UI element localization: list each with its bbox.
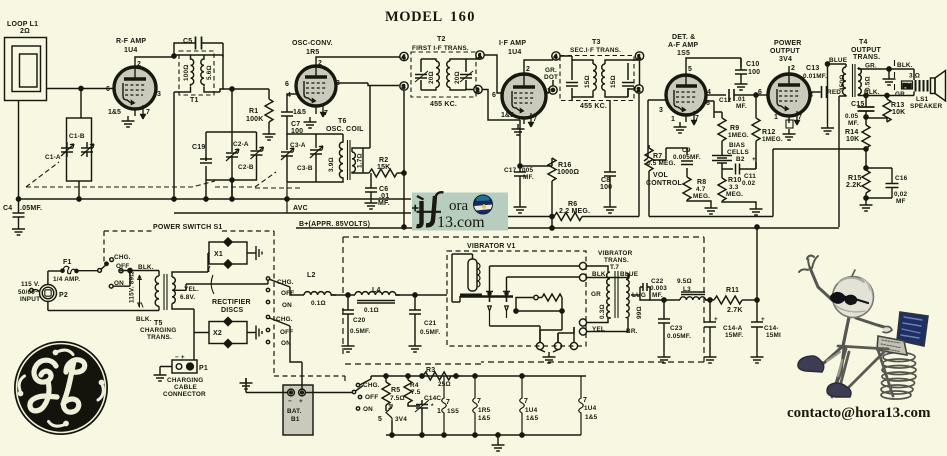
resistor R2 15K: [369, 169, 397, 177]
ground C13: [821, 123, 834, 134]
svg-text:GR.: GR.: [865, 63, 877, 70]
wire V4 pin4 to C12: [706, 94, 726, 96]
globe icon: [474, 195, 493, 214]
svg-text:R15: R15: [848, 175, 861, 182]
svg-text:ON: ON: [114, 280, 124, 287]
svg-text:7: 7: [533, 116, 537, 123]
pin 4 T2 circle: [400, 52, 408, 60]
svg-text:T.7: T.7: [610, 264, 619, 271]
svg-text:BAT.: BAT.: [287, 408, 302, 415]
wire V5 plate to C13: [809, 91, 821, 93]
svg-text:MF.: MF.: [523, 174, 534, 181]
svg-text:BIAS: BIAS: [729, 142, 746, 149]
svg-text:YEL: YEL: [592, 326, 605, 333]
svg-text:CONNECTOR: CONNECTOR: [163, 391, 206, 398]
svg-text:I·F AMP: I·F AMP: [499, 40, 526, 47]
fuse F1: [48, 266, 98, 273]
svg-text:20Ω: 20Ω: [428, 71, 435, 84]
wire X2/P1 riser: [193, 333, 195, 363]
svg-text:C8: C8: [601, 177, 610, 184]
svg-text:MEG.: MEG.: [726, 191, 743, 198]
svg-text:3: 3: [402, 85, 405, 91]
svg-text:7: 7: [146, 109, 150, 116]
resistor R5 7.5: [382, 376, 390, 411]
capacitor C2-B varc: [251, 147, 264, 160]
vibrator damper contact: [513, 295, 542, 299]
svg-text:0.5MF.: 0.5MF.: [350, 328, 370, 335]
svg-text:2.2K: 2.2K: [846, 182, 862, 189]
tube V4 DET & A-F AMP 1S5: [666, 68, 706, 125]
ground C21: [409, 341, 422, 352]
svg-text:1000Ω: 1000Ω: [557, 169, 579, 176]
svg-text:C2-B: C2-B: [238, 164, 254, 171]
wire switch to T5 primary top: [158, 271, 160, 277]
svg-text:*: *: [431, 403, 434, 410]
transformer T4 core: [853, 64, 856, 97]
svg-text:RECTIFIER: RECTIFIER: [212, 299, 251, 306]
svg-text:15Ω: 15Ω: [610, 75, 617, 88]
svg-text:ON: ON: [282, 302, 292, 309]
svg-text:R16: R16: [558, 162, 571, 169]
svg-text:1.7Ω: 1.7Ω: [357, 153, 364, 168]
svg-text:3: 3: [157, 91, 161, 98]
wire gang dashed linkage: [26, 162, 140, 187]
head sphere: [833, 277, 874, 318]
coil T1 secondary: [201, 57, 204, 87]
svg-text:SEC.I·F TRANS.: SEC.I·F TRANS.: [570, 47, 621, 54]
svg-text:BLK.: BLK.: [592, 271, 608, 278]
svg-text:1R5: 1R5: [306, 49, 319, 56]
chassis dashed boundary: [894, 60, 896, 90]
svg-text:7: 7: [583, 397, 587, 404]
vibrator inner dashed box V1: [447, 251, 586, 346]
coil L4: [355, 292, 400, 295]
svg-text:R12: R12: [762, 129, 775, 136]
svg-text:1&5: 1&5: [478, 415, 491, 422]
svg-text:0,02: 0,02: [894, 191, 907, 198]
resistor R9 1MEG: [718, 118, 726, 152]
svg-text:455 KC.: 455 KC.: [580, 103, 607, 110]
capacitor C21: [409, 310, 421, 341]
svg-text:OFF: OFF: [281, 290, 294, 297]
shoe left: [798, 356, 824, 372]
resistor R15 2.2K: [862, 170, 870, 200]
vibrator outer dashed box: [343, 237, 704, 364]
svg-text:C14C: C14C: [424, 395, 441, 402]
vibrator coil: [468, 259, 480, 291]
resistor R11 2.7K: [714, 296, 742, 304]
svg-text:CHG.: CHG.: [277, 279, 294, 286]
svg-text:CHARGING: CHARGING: [140, 327, 176, 334]
capacitor C20: [342, 295, 354, 341]
tube V3 I-F AMP 1U4: [502, 68, 546, 127]
svg-text:DET. &: DET. &: [672, 34, 695, 41]
svg-text:0.5MF.: 0.5MF.: [420, 329, 440, 336]
svg-text:FIRST I-F TRANS.: FIRST I-F TRANS.: [412, 45, 469, 52]
svg-text:1U4: 1U4: [508, 49, 521, 56]
connector P1: [160, 360, 197, 373]
ground R10: [750, 204, 763, 215]
B+ bus: [296, 227, 839, 229]
svg-text:115 V.: 115 V.: [21, 281, 40, 288]
svg-text:1&5: 1&5: [293, 109, 306, 116]
svg-text:160: 160: [450, 9, 476, 25]
right arm to laptop: [856, 318, 884, 327]
filament rail top: [371, 375, 586, 377]
wire R14 to R15 node: [865, 149, 867, 168]
vibrator pins bottom: [536, 342, 543, 349]
capacitor C16: [866, 168, 899, 198]
svg-text:3V4: 3V4: [779, 56, 792, 63]
transformer T2 dashed box: [411, 52, 476, 97]
svg-text:7: 7: [324, 110, 328, 117]
svg-text:0.3Ω: 0.3Ω: [599, 304, 606, 319]
svg-text:1R5: 1R5: [478, 407, 491, 414]
vibrator contact 2: [503, 291, 510, 318]
wire T2 pin2 to AVC: [482, 90, 520, 167]
node 232,89: [230, 87, 234, 91]
svg-text:6: 6: [106, 86, 110, 93]
svg-text:CHG.: CHG.: [276, 316, 293, 323]
svg-text:DOT: DOT: [544, 74, 558, 81]
wire T3 sec bottom tap to C8: [572, 97, 610, 168]
svg-text:R3: R3: [426, 367, 435, 374]
GE logo: [14, 341, 108, 435]
svg-text:C1-A: C1-A: [45, 154, 61, 161]
svg-text:CELLS: CELLS: [727, 149, 749, 156]
svg-text:L3: L3: [683, 286, 691, 293]
svg-text:P2: P2: [59, 292, 68, 299]
capacitor T2 trimmer right: [460, 59, 473, 90]
resistor R3 25 horizontal: [422, 372, 460, 380]
ground C23: [658, 352, 671, 363]
transformer T6 core: [348, 140, 351, 180]
svg-text:10K: 10K: [846, 136, 859, 143]
transformer T7 core: [615, 271, 618, 318]
svg-text:2.7K: 2.7K: [727, 307, 743, 314]
svg-text:7: 7: [524, 398, 528, 405]
svg-text:3.9Ω: 3.9Ω: [328, 157, 335, 172]
coil T3 primary: [572, 60, 596, 97]
spring: [881, 353, 916, 400]
svg-text:POWER: POWER: [774, 40, 801, 47]
ground P1: [154, 370, 167, 381]
trousers shading: [827, 352, 842, 376]
transformer T5 secondary: [172, 272, 208, 309]
svg-text:4.7: 4.7: [696, 186, 706, 193]
svg-text:BLK.: BLK.: [138, 264, 154, 271]
svg-text:TRANS.: TRANS.: [147, 334, 172, 341]
ground C14-B: [751, 352, 764, 363]
cartoon mascot: [798, 256, 928, 399]
svg-text:100Ω: 100Ω: [183, 64, 190, 81]
body torso: [843, 317, 849, 346]
svg-text:T2: T2: [437, 36, 446, 43]
wire C3 bottom to AVC bus: [286, 182, 288, 213]
svg-text:T5: T5: [154, 320, 163, 327]
svg-text:1&5: 1&5: [585, 414, 598, 421]
svg-text:1&5: 1&5: [526, 415, 539, 422]
vibrator reed: [460, 295, 513, 297]
tube V1 R-F AMP 1U4: [114, 61, 156, 119]
svg-text:100: 100: [291, 128, 303, 135]
wire V2 pin4 to C7: [287, 94, 296, 112]
legs: [813, 346, 843, 363]
resistor R4 7.5: [404, 376, 420, 410]
svg-text:R-F AMP: R-F AMP: [116, 38, 146, 45]
svg-text:99Ω: 99Ω: [636, 306, 643, 319]
ground X1: [256, 246, 262, 260]
wire 232 down to C19 box top: [206, 132, 257, 161]
pin 1 T2 circle: [476, 51, 484, 59]
svg-text:GR.: GR.: [895, 91, 907, 98]
svg-text:0.005MF.: 0.005MF.: [673, 154, 701, 161]
transformer T7 secondary: [626, 273, 629, 318]
wire bank2 to L2: [290, 287, 304, 362]
svg-text:MODEL: MODEL: [385, 9, 443, 25]
svg-text:−: −: [288, 398, 292, 405]
svg-text:+: +: [752, 156, 756, 163]
ground C14-A: [704, 352, 717, 363]
wire T1 primary top/bottom: [174, 55, 220, 92]
title MODEL 160: [385, 9, 476, 25]
svg-text:C14-A: C14-A: [723, 325, 743, 332]
svg-text:CONTROL: CONTROL: [646, 180, 683, 187]
ground V2 cathode: [304, 117, 317, 128]
wire T3 sec top to pin: [628, 60, 640, 97]
wire to R1 and V2 grid: [232, 89, 269, 132]
svg-text:R10: R10: [728, 177, 741, 184]
ground C6: [365, 198, 378, 209]
svg-text:2: 2: [476, 88, 479, 94]
wire L4 right to vibrator: [396, 295, 447, 310]
svg-text:CHARGING: CHARGING: [167, 377, 203, 384]
svg-text:OFF: OFF: [365, 394, 378, 401]
svg-text:C5: C5: [183, 38, 192, 45]
svg-text:AVC: AVC: [293, 205, 308, 212]
coil T3 secondary: [602, 60, 628, 97]
ground X2: [256, 326, 262, 340]
capacitor C22: [640, 283, 652, 300]
wire C12 to V5 grid: [758, 94, 769, 96]
wire T7 sec center tap LUG: [631, 287, 640, 295]
svg-text:C14-: C14-: [764, 325, 779, 332]
svg-text:C12: C12: [719, 97, 732, 104]
svg-text:C9: C9: [682, 147, 691, 154]
switch S1 bank2 upper: [266, 277, 292, 304]
wire BLUE plate riser to T4: [828, 64, 847, 92]
wire V2 plate to T2 pin4: [316, 57, 400, 60]
wire loop bottom down: [18, 101, 20, 200]
svg-text:R14: R14: [845, 129, 858, 136]
wire V4 pin5 top to C10: [686, 58, 741, 68]
svg-text:0.5Ω: 0.5Ω: [865, 76, 872, 91]
AVC bus: [174, 212, 411, 214]
pin T3 top-left circle: [552, 52, 560, 60]
capacitor C10: [735, 58, 747, 79]
svg-text:C10: C10: [746, 61, 759, 68]
wire L2 to L4: [331, 294, 355, 296]
svg-text:OUTPUT: OUTPUT: [851, 47, 882, 54]
wire sec bottom down C15 chain: [865, 96, 867, 108]
resistor R10 3.3MEG: [718, 169, 756, 204]
wire C17 R16 row: [520, 158, 552, 166]
wire T4 sec bottom to speaker: [858, 92, 914, 96]
ground filament rail: [492, 435, 505, 451]
svg-text:450Ω: 450Ω: [839, 74, 846, 91]
svg-text:C4: C4: [3, 205, 12, 212]
wire C22/L3 node: [640, 295, 658, 300]
capacitor C23: [658, 300, 670, 352]
svg-text:C6: C6: [379, 186, 388, 193]
capacitor C1-A: [61, 142, 74, 157]
pin T3 top-right circle: [635, 52, 643, 60]
svg-text:VIBRATOR V1: VIBRATOR V1: [467, 243, 516, 250]
svg-text:2: 2: [526, 66, 530, 73]
wire vibrator ground: [490, 326, 559, 360]
wire C9 bottom to R8: [686, 172, 688, 177]
capacitor C3-B varc: [287, 146, 323, 182]
resistor R7 0.5MEG vol: [644, 100, 653, 217]
battery B1: [283, 385, 313, 435]
svg-text:1U4: 1U4: [584, 405, 597, 412]
svg-text:2Ω: 2Ω: [20, 28, 30, 35]
svg-text:R11: R11: [726, 287, 739, 294]
wire T4 sec top BLK to speaker: [858, 69, 914, 80]
svg-text:C7: C7: [291, 121, 300, 128]
svg-text:2.2 MEG.: 2.2 MEG.: [559, 208, 590, 215]
svg-text:YEL.: YEL.: [184, 286, 199, 293]
svg-text:100: 100: [600, 184, 612, 191]
svg-text:ON: ON: [363, 406, 373, 413]
resistor R1 100K: [265, 99, 273, 122]
svg-text:OUTPUT: OUTPUT: [770, 48, 801, 55]
svg-text:0.01MF.: 0.01MF.: [803, 73, 827, 80]
rectifier X2: [209, 317, 256, 348]
transformer T4 primary: [839, 67, 846, 96]
ground R1: [263, 129, 276, 140]
wire V3 plate top to T3: [524, 60, 553, 68]
capacitor C14C: [415, 400, 429, 435]
speaker cone: [931, 71, 946, 102]
svg-text:BLK.: BLK.: [897, 62, 913, 69]
svg-text:BLUE: BLUE: [829, 57, 848, 64]
filament 1S5: [442, 376, 447, 435]
wire T6 feedback to V2 pin3: [363, 86, 370, 149]
svg-text:3.3: 3.3: [729, 184, 739, 191]
wire rail to 1S5 filament: [443, 375, 445, 377]
svg-text:1U4: 1U4: [124, 47, 137, 54]
svg-text:C16: C16: [895, 175, 908, 182]
rectifier X1: [209, 238, 256, 269]
wire damper net: [513, 297, 579, 312]
svg-text:6: 6: [285, 81, 289, 88]
svg-text:0.02: 0.02: [742, 180, 755, 187]
wire T3 pin right down: [638, 60, 641, 216]
stool: [832, 346, 893, 397]
wire loop to V1 grid: [47, 88, 114, 90]
svg-text:7: 7: [798, 114, 802, 121]
filament 1U4 b: [579, 376, 584, 435]
svg-text:OFF: OFF: [280, 329, 293, 336]
svg-text:C13: C13: [806, 65, 819, 72]
wire R11 right node: [742, 299, 757, 301]
transformer T1 box: [179, 51, 214, 95]
pin 3 T2 circle: [400, 82, 408, 90]
svg-text:7: 7: [477, 398, 481, 405]
svg-text:contacto@hora13.com: contacto@hora13.com: [787, 405, 931, 421]
tube sym 3V4 filament: [386, 404, 393, 435]
capacitor C14-B: [751, 322, 763, 352]
arrows T5 primary: [138, 275, 143, 308]
svg-text:1/4 AMP.: 1/4 AMP.: [53, 276, 80, 283]
capacitor C11: [722, 162, 756, 175]
transformer T5 core: [164, 274, 167, 310]
svg-text:115V. 89Ω: 115V. 89Ω: [129, 271, 136, 303]
ground C17: [514, 202, 527, 213]
svg-text:OSC-CONV.: OSC-CONV.: [292, 40, 333, 47]
node GR DOT circle: [545, 92, 549, 94]
left arm raised: [810, 268, 842, 309]
capacitor T3 right: [622, 63, 634, 97]
svg-text:.005: .005: [520, 167, 533, 174]
svg-text:R4: R4: [410, 382, 419, 389]
coil T1 primary: [191, 57, 194, 87]
svg-text:C19: C19: [192, 144, 205, 151]
coil T6 secondary: [352, 148, 363, 173]
svg-text:1: 1: [437, 408, 441, 415]
vibrator contact 1: [486, 291, 493, 326]
svg-text:2: 2: [137, 61, 141, 68]
capacitor C6: [365, 173, 377, 198]
capacitor C7: [281, 112, 293, 134]
capacitor C8: [604, 168, 616, 202]
svg-text:BLK.: BLK.: [136, 316, 152, 323]
tube V5 POWER OUTPUT 3V4: [768, 66, 810, 128]
svg-text:TRANS.: TRANS.: [604, 257, 629, 264]
svg-text:50/60~: 50/60~: [18, 289, 39, 296]
svg-text:7: 7: [695, 115, 699, 122]
wire T2 sec top to pin1: [466, 59, 480, 90]
svg-text:B+(APPR. 85VOLTS): B+(APPR. 85VOLTS): [299, 221, 370, 228]
svg-text:MEG.: MEG.: [693, 193, 710, 200]
svg-text:3.Ω: 3.Ω: [909, 73, 920, 80]
capacitor C5: [174, 37, 223, 56]
svg-text:X2: X2: [213, 330, 222, 337]
capacitor C9: [653, 148, 693, 172]
svg-text:0.5 MEG.: 0.5 MEG.: [647, 160, 676, 167]
svg-text:.05MF.: .05MF.: [20, 205, 42, 212]
svg-text:15MF.: 15MF.: [725, 332, 743, 339]
svg-text:25Ω: 25Ω: [438, 381, 451, 388]
wire V4 pin3 left vol wiper: [648, 99, 666, 101]
svg-text:CHG.: CHG.: [363, 382, 380, 389]
svg-text:5: 5: [378, 416, 382, 423]
svg-text:1MEG.: 1MEG.: [728, 132, 749, 139]
svg-text:C23: C23: [670, 325, 683, 332]
switch arms bank2: [270, 279, 290, 326]
ground V4 cathode: [674, 122, 687, 133]
capacitor C15: [858, 107, 875, 115]
svg-text:3: 3: [809, 92, 813, 99]
capacitor C4: [13, 199, 25, 224]
svg-text:1: 1: [388, 404, 392, 411]
svg-text:C3-B: C3-B: [297, 165, 313, 172]
resistor R13 10K: [866, 96, 891, 123]
capacitor C14-A: [704, 322, 716, 352]
ground V1 cathode: [122, 116, 135, 127]
svg-text:LOOP L1: LOOP L1: [7, 21, 38, 28]
